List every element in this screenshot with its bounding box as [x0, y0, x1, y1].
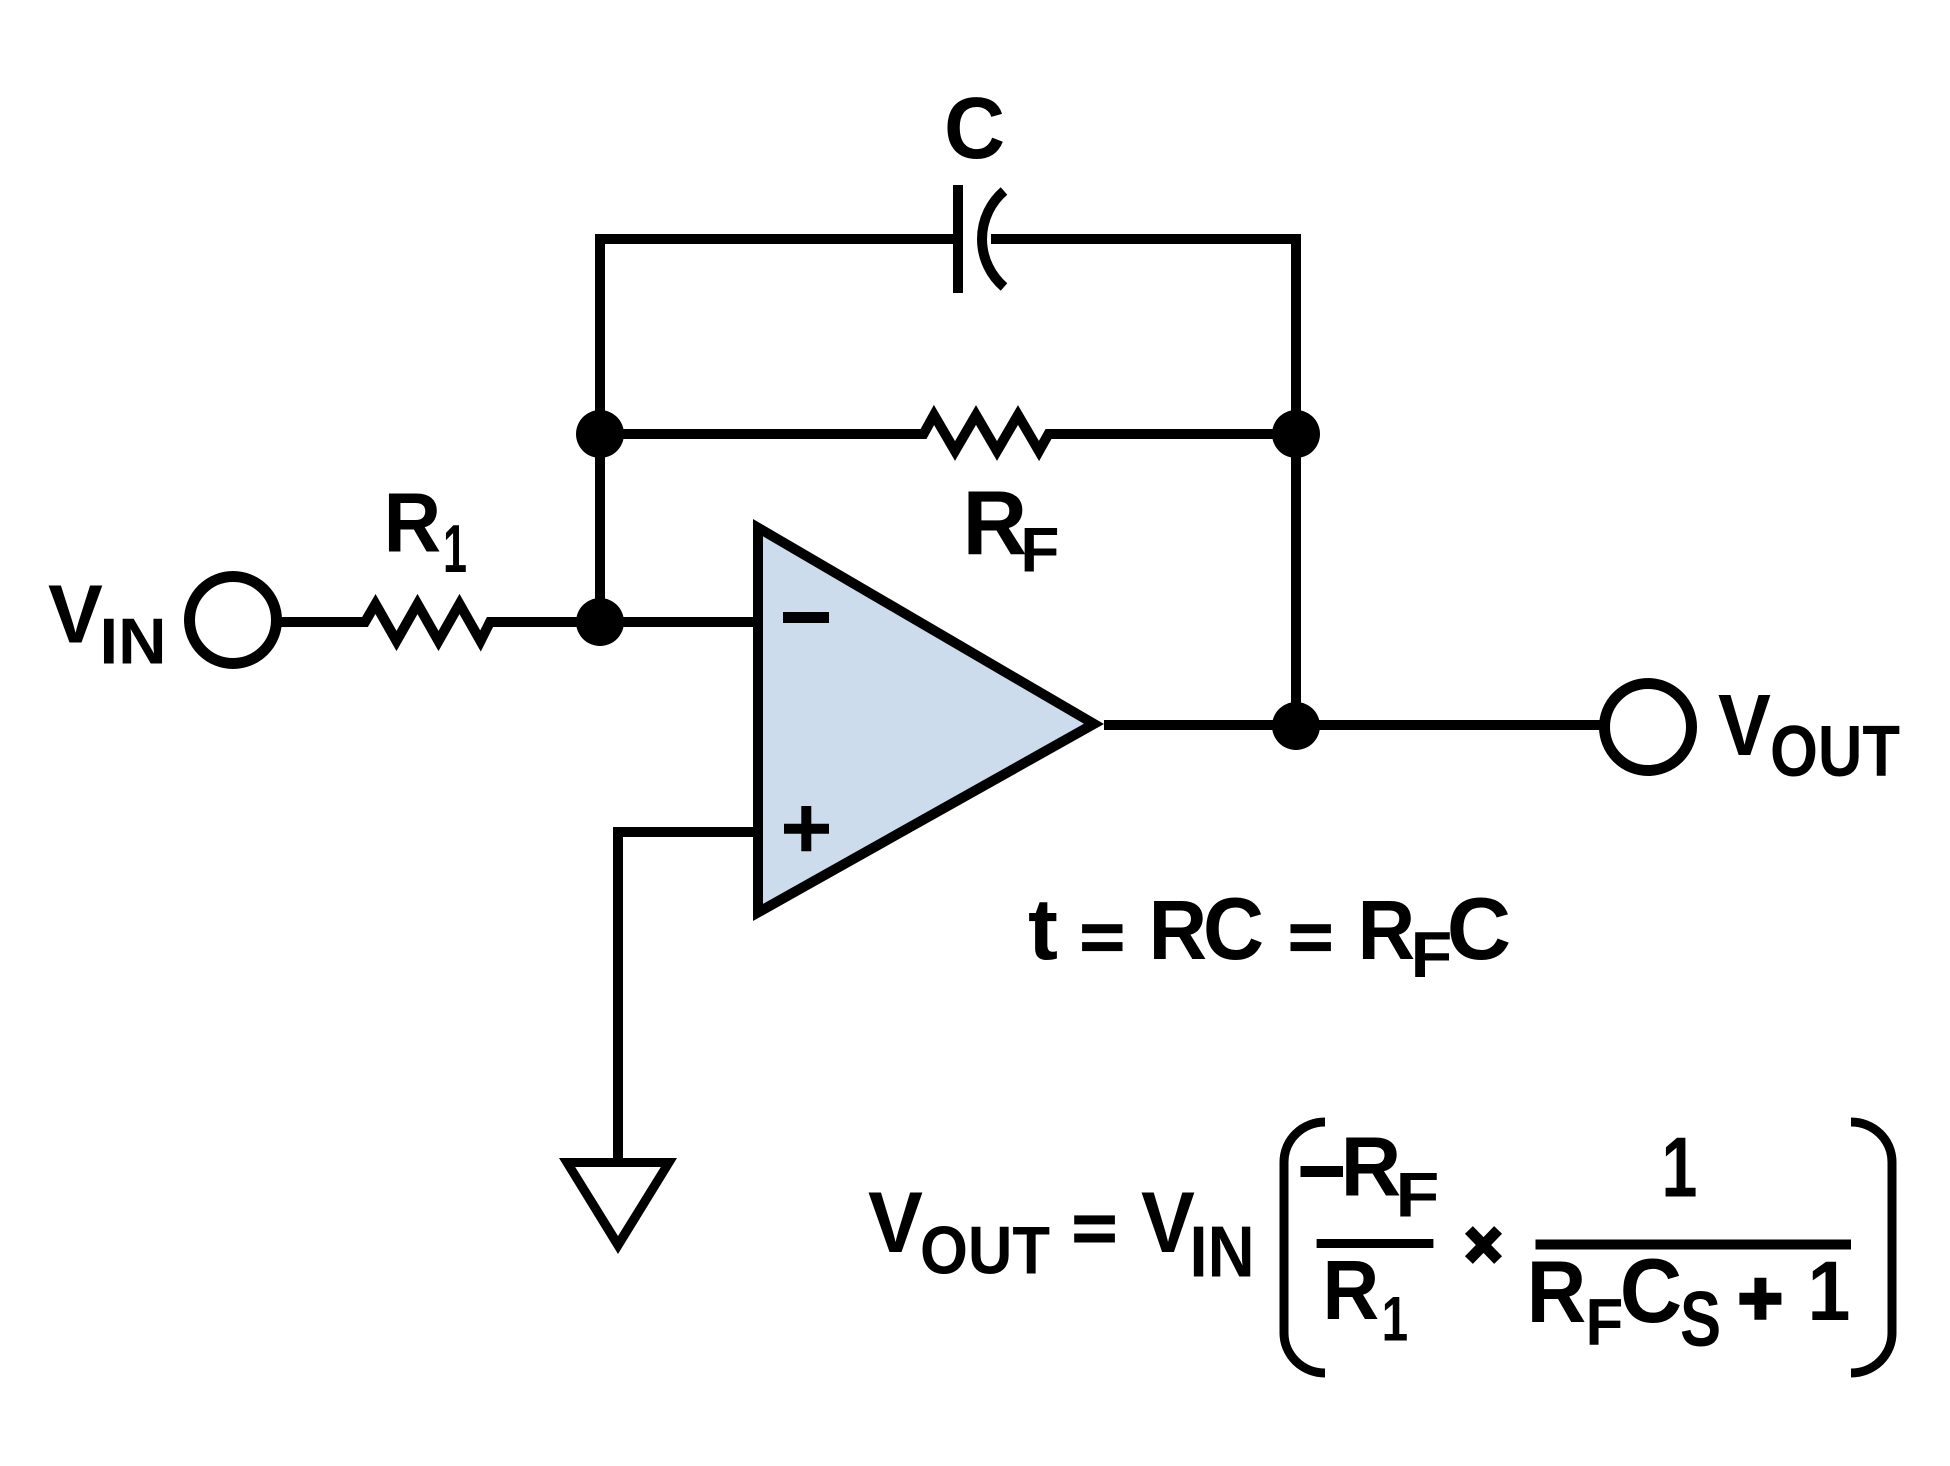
svg-text:V: V [1141, 1175, 1195, 1271]
svg-text:1: 1 [1661, 1121, 1697, 1216]
svg-text:C: C [1620, 1241, 1682, 1342]
svg-text:C: C [1447, 879, 1511, 978]
svg-text:F: F [1396, 1161, 1440, 1231]
svg-text:OUT: OUT [1770, 712, 1900, 792]
svg-text:R: R [1358, 883, 1416, 977]
svg-text:R: R [384, 476, 442, 570]
svg-text:OUT: OUT [920, 1212, 1050, 1288]
svg-text:V: V [48, 568, 103, 661]
svg-text:t: t [1028, 881, 1058, 978]
svg-text:1: 1 [1382, 1284, 1409, 1354]
svg-text:R: R [1149, 883, 1208, 977]
svg-text:V: V [868, 1175, 923, 1271]
svg-text:V: V [1718, 677, 1771, 774]
svg-text:IN: IN [1190, 1212, 1255, 1292]
svg-text:C: C [944, 80, 1005, 177]
svg-text:R: R [1323, 1243, 1380, 1337]
svg-text:F: F [1586, 1285, 1624, 1359]
svg-text:R: R [1341, 1119, 1402, 1213]
svg-text:1: 1 [1807, 1244, 1850, 1338]
svg-text:R: R [963, 473, 1028, 574]
svg-text:1: 1 [443, 511, 467, 587]
svg-text:S: S [1680, 1275, 1721, 1363]
svg-text:IN: IN [100, 605, 167, 678]
svg-text:C: C [1203, 879, 1264, 978]
svg-text:F: F [1020, 515, 1059, 585]
svg-text:R: R [1527, 1242, 1587, 1341]
